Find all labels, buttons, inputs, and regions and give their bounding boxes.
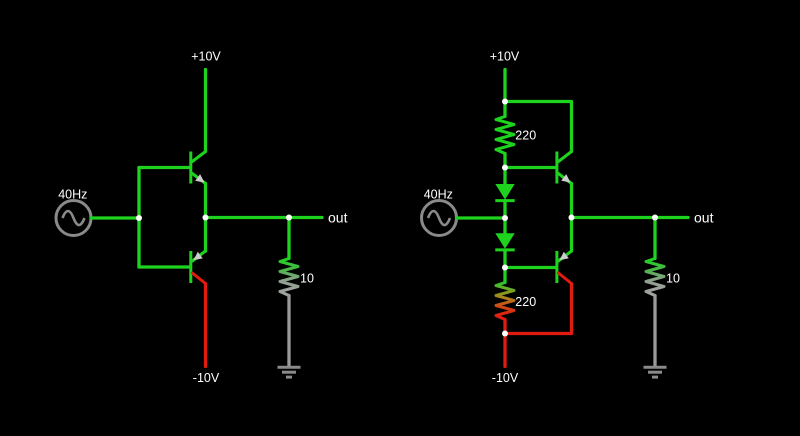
svg-text:-10V: -10V bbox=[492, 371, 519, 385]
transistor Q1 (NPN) collector lead bbox=[192, 152, 205, 162]
svg-text:220: 220 bbox=[515, 295, 536, 309]
label 10 (R1 value) bbox=[300, 272, 314, 286]
wire out to R4 top bbox=[653, 218, 656, 259]
transistor Q3 (NPN) emitter lead bbox=[558, 174, 571, 184]
svg-text:-10V: -10V bbox=[193, 371, 220, 385]
wire +10V rail down bbox=[503, 70, 506, 102]
transistor Q2 (PNP) emitter lead bbox=[192, 251, 205, 261]
label -10V (left rail) bbox=[193, 371, 220, 385]
wire Q1 emitter to out node bbox=[204, 184, 207, 218]
transistor Q1 (NPN) emitter lead bbox=[192, 174, 205, 184]
svg-text:40Hz: 40Hz bbox=[58, 187, 87, 201]
wire source to diode node bbox=[457, 216, 506, 219]
label 40Hz (right) bbox=[424, 187, 453, 201]
wire R2 top lead bbox=[503, 102, 506, 117]
label 40Hz (left) bbox=[58, 187, 87, 201]
transistor Q4 (PNP) emitter lead bbox=[558, 251, 571, 261]
wire out node horizontal (right) bbox=[572, 216, 689, 219]
wire D1 anode lead bbox=[503, 168, 506, 185]
svg-text:+10V: +10V bbox=[191, 50, 221, 64]
node out tee to load bbox=[286, 215, 292, 221]
label +10V (right rail) bbox=[490, 50, 520, 64]
wire to -10V rail bbox=[503, 334, 506, 367]
svg-text:10: 10 bbox=[666, 272, 680, 286]
node Q3 base junction bbox=[502, 165, 508, 171]
svg-text:out: out bbox=[694, 210, 714, 226]
label -10V (right rail) bbox=[492, 371, 519, 385]
node R2 top bbox=[502, 99, 508, 105]
wire +10V rail to Q1 collector bbox=[204, 70, 207, 152]
node input junction (right) bbox=[502, 215, 508, 221]
node out tee to load (right) bbox=[652, 215, 658, 221]
svg-text:+10V: +10V bbox=[490, 50, 520, 64]
transistor Q1 (NPN) base bar bbox=[189, 152, 192, 184]
AC source V1 (40Hz) bbox=[56, 201, 91, 236]
label 10 (R4 value) bbox=[666, 272, 680, 286]
wire R4 bottom to ground bbox=[653, 296, 656, 367]
label 220 (R2 value) bbox=[515, 129, 536, 143]
transistor Q3 (NPN) base bar bbox=[555, 152, 558, 184]
wire Q3 base bbox=[505, 166, 555, 169]
wire R3 bottom lead bbox=[503, 320, 506, 334]
AC source V2 (40Hz) bbox=[422, 201, 457, 236]
node -10V junction bbox=[502, 331, 508, 337]
resistor R4 10 bbox=[646, 259, 664, 296]
svg-text:out: out bbox=[328, 210, 348, 226]
wire D2 cathode lead bbox=[503, 250, 506, 268]
wire out node horizontal bbox=[206, 216, 323, 219]
node input junction bbox=[136, 215, 142, 221]
ground (right) bbox=[644, 367, 667, 377]
wire R3 top lead bbox=[503, 268, 506, 283]
wire Q4 collector to -10V node bbox=[505, 284, 572, 334]
wire R1 bottom to ground bbox=[287, 296, 290, 367]
svg-text:10: 10 bbox=[300, 272, 314, 286]
resistor R3 220 bbox=[496, 283, 514, 320]
diode D2 bbox=[495, 233, 514, 250]
transistor Q1 (NPN) emitter arrow bbox=[195, 174, 204, 183]
wire Q1 base bbox=[139, 166, 189, 169]
wire out to R1 top bbox=[287, 218, 290, 259]
ground (left) bbox=[278, 367, 301, 377]
wire D1 cathode lead bbox=[503, 201, 506, 219]
node Q4 base junction bbox=[502, 265, 508, 271]
diode D1 bbox=[495, 184, 514, 201]
wire Q2 collector to -10V rail bbox=[204, 284, 207, 367]
label out (right) bbox=[694, 210, 714, 226]
wire Q2 base bbox=[139, 265, 189, 268]
wire source to bases bbox=[91, 216, 139, 219]
resistor R1 10 bbox=[280, 259, 298, 296]
transistor Q4 (PNP) base bar bbox=[555, 251, 558, 283]
transistor Q2 (PNP) collector lead bbox=[192, 273, 205, 284]
node out (emitters) bbox=[203, 215, 209, 221]
label 220 (R3 value) bbox=[515, 295, 536, 309]
transistor Q3 (NPN) emitter arrow bbox=[561, 174, 570, 183]
label out (left) bbox=[328, 210, 348, 226]
transistor Q3 (NPN) collector lead bbox=[558, 152, 571, 162]
transistor Q4 (PNP) emitter arrow bbox=[560, 252, 569, 260]
transistor Q4 (PNP) collector lead bbox=[558, 273, 571, 284]
wire top to Q3 collector bbox=[505, 102, 572, 152]
label +10V (left rail) bbox=[191, 50, 221, 64]
svg-text:40Hz: 40Hz bbox=[424, 187, 453, 201]
transistor Q2 (PNP) base bar bbox=[189, 251, 192, 283]
wire Q4 base bbox=[505, 266, 555, 269]
wire input vertical bus bbox=[137, 168, 140, 268]
wire D2 anode lead bbox=[503, 218, 506, 234]
transistor Q2 (PNP) emitter arrow bbox=[193, 252, 202, 260]
svg-text:220: 220 bbox=[515, 129, 536, 143]
wire Q3 emitter to out node bbox=[570, 184, 573, 218]
wire out node to Q4 emitter bbox=[570, 218, 573, 252]
resistor R2 220 bbox=[496, 117, 514, 154]
wire out node to Q2 emitter bbox=[204, 218, 207, 252]
node out (right emitters) bbox=[569, 215, 575, 221]
wire R2 bottom lead bbox=[503, 154, 506, 168]
